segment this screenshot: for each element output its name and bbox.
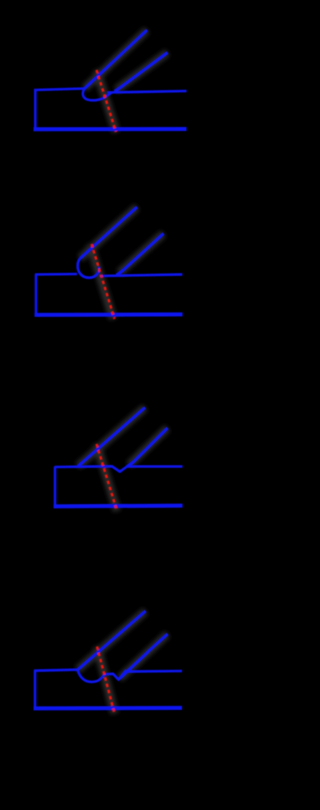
built-up edge loop D2: [78, 259, 99, 278]
artifact glow D3: [78, 408, 168, 512]
machined surface left segment with fracture notch D4: [104, 670, 127, 680]
diagram 1: continuous chip: [34, 30, 187, 132]
shear plane (red dashed) D3: [97, 444, 118, 511]
surface line with serration notch D3: [55, 466, 183, 471]
shear plane (red dashed) D1: [97, 70, 117, 132]
workpiece left edge D2: [35, 274, 38, 315]
chip back edge (upper diagonal) D4: [78, 611, 146, 670]
chip face edge (lower diagonal, kinked) D4: [120, 634, 168, 679]
shear plane (red dashed) D2: [92, 244, 115, 319]
workpiece bottom edge D4: [34, 706, 183, 711]
workpiece left edge D1: [34, 90, 37, 130]
chip face edge (lower diagonal) D1: [115, 53, 168, 92]
workpiece top edge D4: [34, 670, 78, 671]
chip face edge (lower diagonal) D2: [117, 234, 164, 276]
chip back edge (upper diagonal) D2: [80, 207, 137, 259]
chip root curl D1: [83, 88, 112, 100]
diagram 2: built-up edge chip: [35, 207, 183, 319]
workpiece top edge D2: [35, 273, 77, 276]
workpiece left edge D4: [34, 670, 37, 708]
machined surface line D1: [107, 91, 187, 93]
workpiece bottom edge D2: [35, 312, 183, 317]
artifact glow D2: [80, 207, 164, 319]
workpiece bottom edge D3: [54, 504, 183, 509]
workpiece top edge D1: [34, 89, 85, 91]
artifact glow D1: [85, 30, 168, 132]
workpiece bottom edge D1: [34, 127, 187, 131]
diagram 3: serrated chip: [54, 408, 183, 512]
shear plane (red dashed) D4: [97, 647, 115, 714]
workpiece left edge D3: [54, 467, 57, 507]
chip back edge (upper diagonal) D1: [85, 30, 148, 89]
chip back edge (upper diagonal) D3: [78, 408, 145, 467]
chip root dip curve D4: [78, 670, 105, 682]
diagram 4: discontinuous chip: [34, 611, 183, 714]
machined surface right segment D4: [126, 670, 183, 673]
chip face edge (lower diagonal) D3: [127, 428, 168, 467]
artifact glow D4: [78, 611, 168, 714]
machined surface line D2: [100, 274, 183, 276]
